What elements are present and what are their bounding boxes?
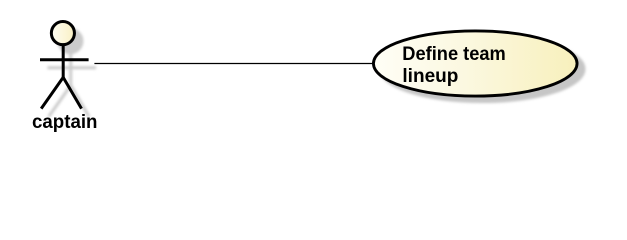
svg-text:lineup: lineup xyxy=(402,65,458,87)
svg-text:captain: captain xyxy=(32,111,98,133)
svg-text:Define team: Define team xyxy=(402,43,506,65)
